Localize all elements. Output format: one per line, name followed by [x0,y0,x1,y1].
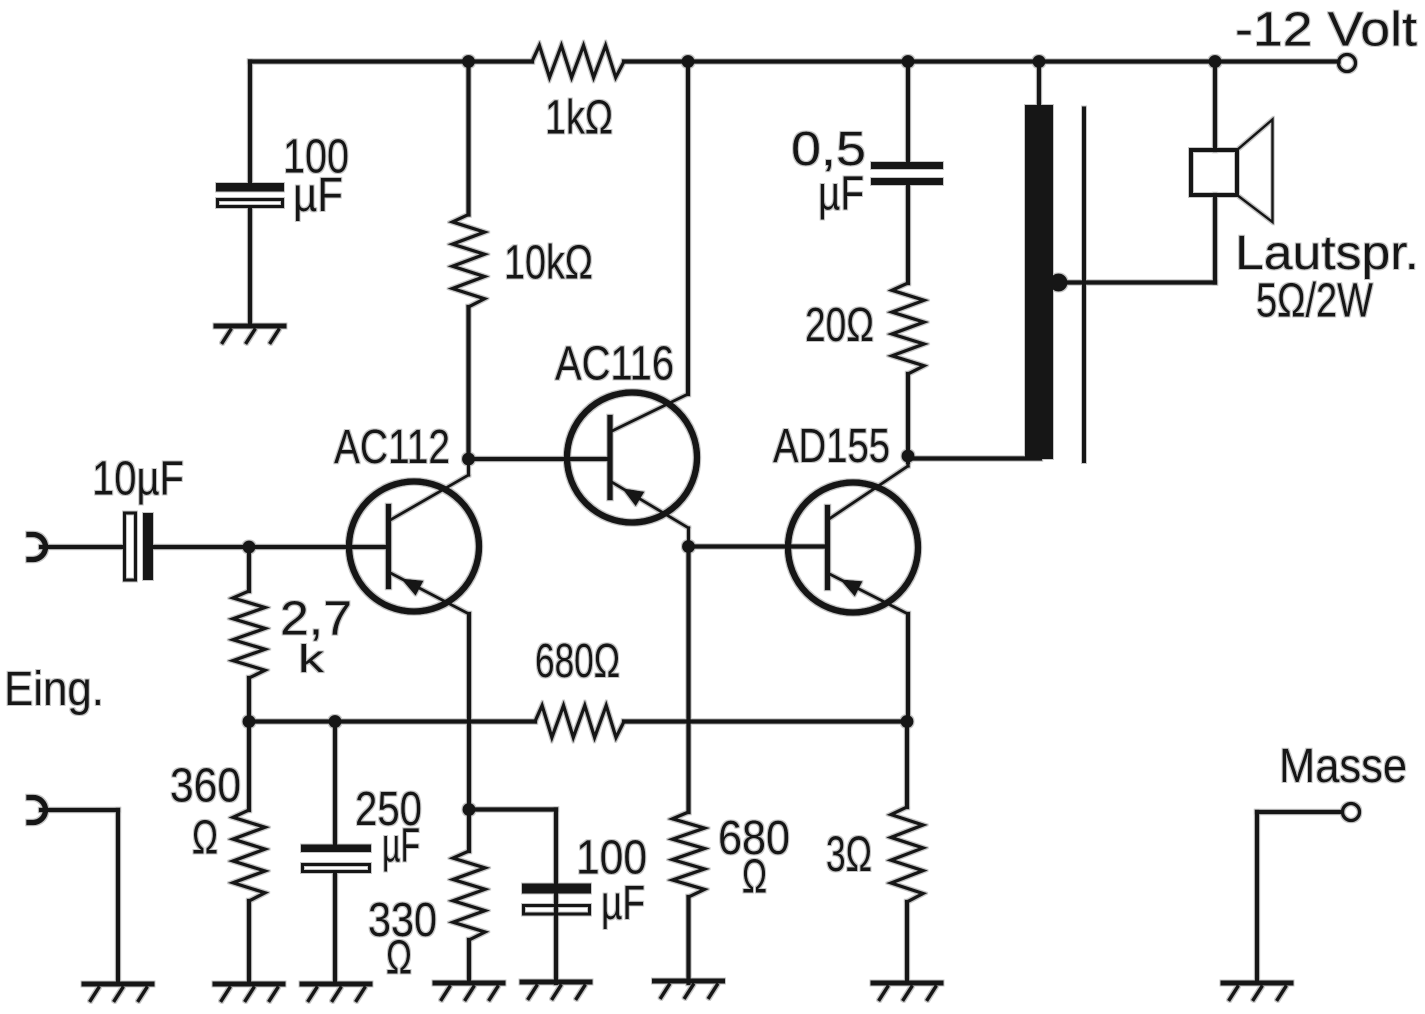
svg-text:µF: µF [818,168,864,221]
svg-text:µF: µF [382,820,420,873]
svg-text:5Ω/2W: 5Ω/2W [1256,275,1374,328]
svg-text:µF: µF [601,877,645,930]
svg-text:-12 Volt: -12 Volt [1235,4,1417,57]
svg-text:AD155: AD155 [773,420,890,473]
svg-text:Lautspr.: Lautspr. [1235,227,1419,280]
svg-text:µF: µF [293,169,343,222]
svg-text:Ω: Ω [192,812,218,865]
svg-text:360: 360 [170,760,241,813]
svg-text:1kΩ: 1kΩ [545,92,613,145]
svg-text:3Ω: 3Ω [826,826,872,882]
svg-text:680Ω: 680Ω [535,635,620,688]
svg-text:AC112: AC112 [334,421,450,474]
svg-text:Ω: Ω [742,851,767,904]
svg-text:Masse: Masse [1279,740,1407,793]
svg-text:20Ω: 20Ω [805,299,874,352]
svg-text:k: k [298,639,325,682]
svg-text:Eing.: Eing. [4,663,104,716]
svg-text:10µF: 10µF [92,453,184,506]
svg-text:10kΩ: 10kΩ [504,237,593,290]
svg-text:AC116: AC116 [555,338,674,391]
svg-text:Ω: Ω [386,932,412,985]
